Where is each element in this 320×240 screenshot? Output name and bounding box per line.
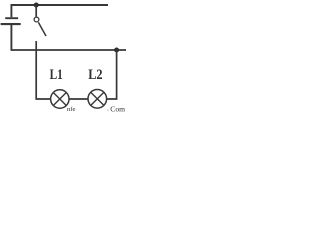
switch S (open) xyxy=(34,5,46,36)
wire battery top lead xyxy=(10,5,12,17)
svg-text:Com: Com xyxy=(110,104,125,113)
node junction A (switch tap on top rail) xyxy=(34,3,39,8)
svg-text:L2: L2 xyxy=(88,67,102,83)
svg-text:L1: L1 xyxy=(50,67,63,83)
battery BT xyxy=(1,18,21,24)
wire top rail xyxy=(11,4,109,6)
node junction B (right branch on middle rail) xyxy=(114,48,119,53)
wire middle rail xyxy=(11,49,127,51)
wire battery negative lead xyxy=(10,25,12,50)
lamp L1 xyxy=(51,90,69,108)
svg-text:nfe: nfe xyxy=(67,106,75,113)
wire between lamps xyxy=(69,98,88,100)
wire right branch down to lamp row xyxy=(107,50,117,99)
wire switch lower contact to lamp row xyxy=(36,41,51,99)
lamp L2 xyxy=(88,90,107,109)
